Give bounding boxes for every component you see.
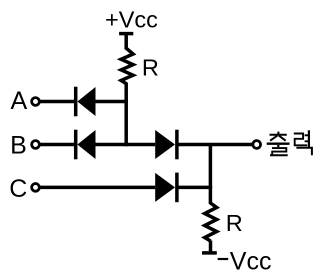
- label R (value of R1): [142, 55, 159, 81]
- chul: chieut horizontal bar: [270, 134, 287, 136]
- ryeok: vowel yeo upper tick: [305, 134, 309, 136]
- svg-text:R: R: [226, 210, 243, 236]
- wire: diode D3 to node N2: [177, 143, 210, 147]
- ryeok: rieul left: [294, 134, 307, 146]
- svg-text:A: A: [11, 87, 28, 115]
- power label -Vcc minus sign: [218, 258, 229, 260]
- wire: diode D4 to node N2: [177, 186, 212, 190]
- input terminal A: [32, 98, 40, 106]
- input terminal B: [32, 141, 40, 149]
- output label 출력 (drawn strokes): [267, 130, 312, 155]
- label R (value of R2): [226, 210, 243, 236]
- ryeok: vowel yeo vertical: [308, 130, 310, 148]
- wire: terminal C to diode D4: [39, 186, 155, 190]
- diode D2: [76, 130, 96, 160]
- wire: terminal B to diode D2: [39, 143, 75, 147]
- wire: diode D1 to node N1: [96, 100, 128, 104]
- input terminal C: [32, 184, 40, 192]
- resistor R1: [121, 48, 133, 83]
- wire: +Vcc terminal to resistor R1: [124, 34, 128, 50]
- chul: vowel u horizontal bar: [267, 142, 290, 144]
- wire: terminal A to diode D1: [39, 100, 75, 104]
- output terminal: [253, 141, 261, 149]
- chul: vowel u stem: [277, 145, 279, 147]
- wire: diode D2 to node N1: [96, 143, 127, 147]
- power label +Vcc: [105, 6, 158, 32]
- diode D4: [155, 173, 177, 203]
- svg-text:B: B: [10, 132, 27, 160]
- diode D1: [76, 87, 96, 117]
- diode D3: [155, 130, 177, 160]
- svg-text:Vcc: Vcc: [230, 247, 272, 275]
- wire: node N2 down to C-row junction: [209, 145, 213, 188]
- +Vcc terminal bar: [119, 32, 133, 36]
- wire: C-row junction to resistor R2: [209, 187, 213, 204]
- wire: node N2 to output terminal: [210, 143, 253, 147]
- chul: rieul bottom: [270, 148, 288, 155]
- power label -Vcc: [230, 247, 272, 275]
- svg-text:R: R: [142, 55, 159, 81]
- resistor R2: [205, 203, 217, 241]
- svg-text:C: C: [9, 175, 27, 203]
- input label B: [10, 132, 27, 160]
- input label C: [9, 175, 27, 203]
- syllable chul: top tick of chieut: [277, 132, 279, 134]
- chul: chieut left leg: [270, 136, 277, 141]
- -Vcc terminal bar: [202, 251, 217, 255]
- ryeok: final giyeok: [296, 148, 312, 155]
- input label A: [11, 87, 28, 115]
- wire: resistor R1 bottom to node N1: [124, 83, 128, 147]
- wire: resistor R2 to -Vcc terminal: [209, 241, 213, 253]
- chul: chieut right leg: [279, 136, 286, 141]
- node N1 / wire: node N1 to diode D3: [126, 143, 155, 147]
- ryeok: vowel yeo lower tick: [305, 140, 309, 142]
- svg-text:+Vcc: +Vcc: [105, 6, 158, 32]
